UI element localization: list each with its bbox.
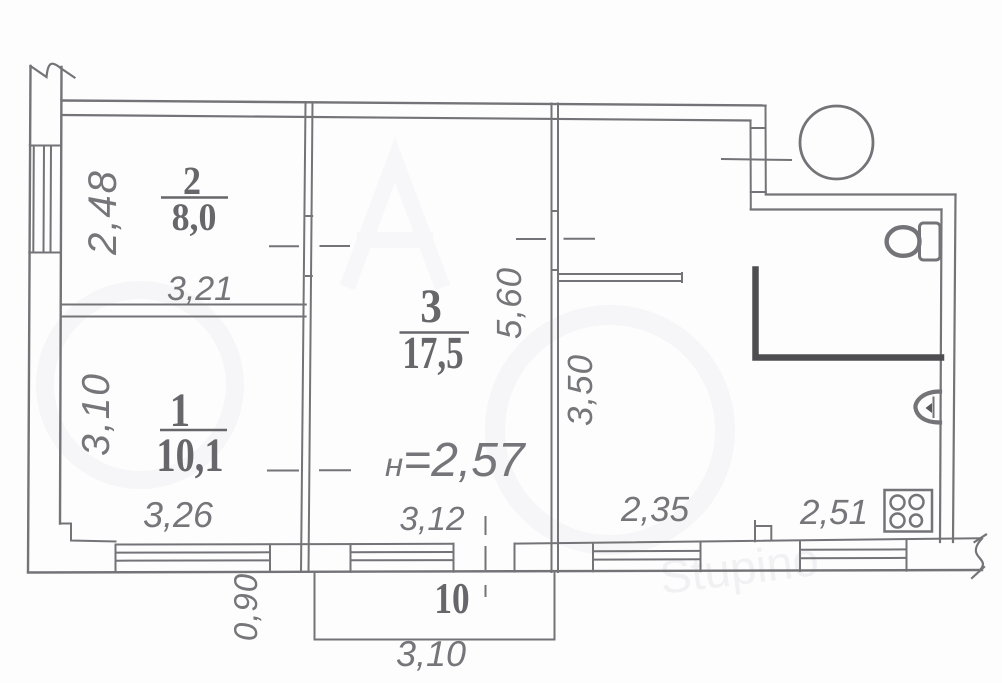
window4 line mid1 <box>800 548 907 550</box>
left wall outer line <box>28 66 31 572</box>
interior wall room3/hall line right <box>557 104 559 573</box>
svg-text:3,26: 3,26 <box>143 494 214 535</box>
interior wall room3/hall line left <box>551 104 553 573</box>
svg-text:2,48: 2,48 <box>81 169 125 256</box>
vent tick line near circle <box>722 159 791 160</box>
svg-text:н=2,57: н=2,57 <box>385 434 527 487</box>
interior wall rooms2-1/3 line right <box>309 103 313 572</box>
upper right corner vertical inner <box>750 121 752 210</box>
window1 line mid1 <box>116 551 271 553</box>
tick in upper right vertical wall low <box>751 191 766 193</box>
svg-text:3,10: 3,10 <box>75 372 118 456</box>
tick on wall 2/3 upper <box>307 215 313 217</box>
svg-text:3,10: 3,10 <box>396 633 466 674</box>
window4 cap right <box>906 540 908 571</box>
bath top wall outer line <box>766 193 956 195</box>
hall/bath wall end cap <box>681 273 683 282</box>
upper right corner vertical outer <box>765 106 767 195</box>
svg-text:3,50: 3,50 <box>561 354 600 426</box>
hall/bath wall bottom line <box>558 280 682 282</box>
window3 line mid2 <box>593 558 701 560</box>
svg-text:17,5: 17,5 <box>402 327 463 378</box>
sink inner line <box>933 398 935 418</box>
bottom wall top line left run <box>116 543 454 546</box>
interior wall rooms2-1/3 line left <box>301 103 306 572</box>
stove burner br <box>910 515 922 527</box>
left window bottom cap <box>29 252 61 254</box>
svg-text:2,35: 2,35 <box>620 490 690 529</box>
bottom wall top line right run <box>515 538 981 543</box>
left window top cap <box>30 145 62 147</box>
watermark faint blob <box>45 160 821 604</box>
window2 line mid2 <box>351 559 454 561</box>
door dashes hall wall right <box>565 238 595 240</box>
window2 line mid1 <box>351 551 454 553</box>
left window glass line a <box>43 146 46 253</box>
bottom wall right break: top end tick <box>975 535 987 543</box>
svg-text:3,21: 3,21 <box>167 270 233 308</box>
balcony door centerline dash 3 <box>485 586 487 596</box>
stove body <box>885 490 933 532</box>
right wall outer line <box>953 195 956 543</box>
window2 cap right / balcony door jamb <box>453 544 455 572</box>
pier notch step bar <box>755 526 771 541</box>
window3 cap left <box>592 543 594 571</box>
window1 cap left <box>115 545 117 573</box>
bottom wall right break squiggle <box>976 539 983 570</box>
door dashes wall 2/3 left <box>270 245 298 247</box>
right wall inner line <box>940 210 942 543</box>
svg-text:3: 3 <box>420 280 442 333</box>
toilet tank <box>920 223 941 260</box>
door dashes wall 1/3 right <box>320 469 350 471</box>
left window frame line <box>32 146 35 253</box>
balcony bottom line <box>315 639 555 641</box>
left window glass line b <box>50 146 53 253</box>
hall/bath wall top line <box>558 273 682 275</box>
tick on wall 2/3 mid <box>306 275 312 277</box>
svg-text:2,51: 2,51 <box>799 493 868 532</box>
tick in upper right vertical wall <box>751 127 766 129</box>
door dashes wall 2/3 right <box>321 245 350 247</box>
thick partition L-wall <box>756 270 942 358</box>
wall between rooms 2 and 1 top line <box>61 304 306 306</box>
door dashes wall 1/3 left <box>268 470 298 472</box>
top wall outer line <box>62 101 766 106</box>
svg-text:Stupino: Stupino <box>657 532 822 604</box>
balcony right line <box>554 572 556 640</box>
toilet bowl <box>887 227 920 256</box>
sink faucet dot <box>926 403 933 413</box>
wall between rooms 2 and 1 bottom line <box>61 316 306 318</box>
room1 floor step: inner corner <box>60 524 116 542</box>
ventilation shaft circle <box>800 106 873 179</box>
window4 cap left <box>799 542 801 572</box>
left wall break symbol <box>31 64 75 78</box>
svg-text:8,0: 8,0 <box>172 196 217 239</box>
balcony door jamb right <box>514 544 516 572</box>
top wall inner line <box>62 115 751 121</box>
window4 line mid2 <box>800 557 907 559</box>
svg-text:5,60: 5,60 <box>490 267 529 339</box>
window1 cap right <box>269 544 271 572</box>
tick on hall wall low <box>552 269 559 271</box>
window2 cap left <box>350 544 352 572</box>
balcony door centerline dash 2 <box>485 547 487 569</box>
window3 cap right <box>700 543 702 572</box>
pier notch step left post <box>754 521 756 541</box>
svg-text:3,12: 3,12 <box>399 501 465 538</box>
room 2 fraction bar <box>161 196 228 198</box>
svg-text:0,90: 0,90 <box>227 573 264 641</box>
svg-text:10: 10 <box>434 574 469 623</box>
stove burner tr <box>910 495 924 509</box>
room 1 fraction bar <box>160 429 227 431</box>
bottom wall outer line <box>28 570 982 573</box>
sink bowl <box>915 392 940 423</box>
bottom wall right break: bottom end tick <box>972 567 984 578</box>
room 3 fraction bar <box>400 331 470 333</box>
left wall inner line <box>60 67 62 524</box>
balcony door centerline dash 1 <box>485 517 487 534</box>
stove burner bl <box>891 514 905 528</box>
stove burner tl <box>891 496 905 510</box>
door dashes hall wall left <box>517 238 545 240</box>
balcony left line <box>314 572 316 640</box>
svg-text:10,1: 10,1 <box>156 429 223 482</box>
bath top wall inner line <box>751 208 942 210</box>
window1 line mid2 <box>116 559 271 561</box>
tick on hall wall <box>552 210 559 212</box>
window3 line mid1 <box>593 550 701 552</box>
